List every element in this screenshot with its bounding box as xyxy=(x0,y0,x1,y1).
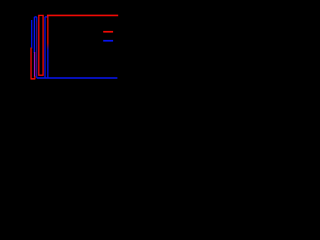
resistor R3 (red top / blue bottom gradient column) xyxy=(47,15,49,78)
component lead (blue upper part of second column) xyxy=(33,17,35,53)
component lead (purple mid part of second column) xyxy=(34,52,36,77)
wire: blue bottom ground rail xyxy=(37,77,118,79)
resistor R2 left side (blue) xyxy=(44,17,46,78)
wire: red bottom-left segment xyxy=(31,78,36,80)
voltage source V1 negative lead (blue, upper left) xyxy=(31,20,33,49)
wire: blue top segment (node A) xyxy=(34,16,36,18)
voltage source V1 positive lead (red, lower left) xyxy=(30,48,32,79)
capacitor C1 bottom plate (blue) xyxy=(103,40,113,42)
wire: red top supply rail xyxy=(47,14,118,16)
background xyxy=(0,0,140,98)
resistor R2 top side (blue) xyxy=(45,16,48,18)
capacitor C1 top plate (red) xyxy=(103,31,113,33)
resistor R1 (red box, European style) xyxy=(39,15,43,75)
wire: blue vertical drop to ground rail xyxy=(36,17,38,78)
component lead (red tail of second column) xyxy=(34,76,36,79)
